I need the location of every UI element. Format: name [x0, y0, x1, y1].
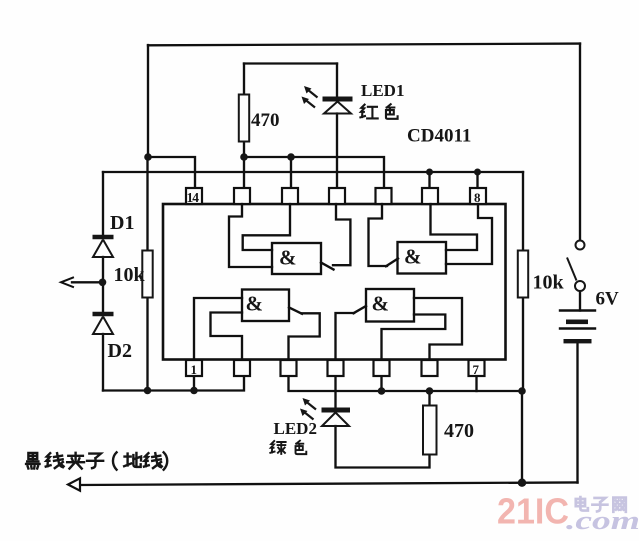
svg-text:D2: D2 — [108, 340, 132, 362]
svg-text:6V: 6V — [596, 289, 620, 310]
svg-text:&: & — [279, 246, 297, 270]
svg-text:470: 470 — [444, 420, 474, 442]
svg-text:14: 14 — [187, 190, 200, 205]
svg-text:1: 1 — [191, 362, 198, 377]
svg-text:&: & — [372, 292, 390, 316]
svg-text:.com: .com — [566, 506, 639, 535]
svg-text:LED2: LED2 — [274, 419, 317, 438]
svg-text:D1: D1 — [110, 212, 134, 234]
svg-text:&: & — [404, 245, 422, 269]
svg-text:470: 470 — [251, 110, 280, 131]
svg-text:8: 8 — [474, 190, 481, 205]
svg-text:&: & — [246, 292, 264, 316]
svg-text:LED1: LED1 — [361, 81, 404, 100]
svg-text:10k: 10k — [533, 272, 565, 294]
svg-text:CD4011: CD4011 — [407, 126, 471, 147]
svg-text:10k: 10k — [114, 264, 146, 286]
svg-text:21IC: 21IC — [497, 491, 569, 532]
svg-text:7: 7 — [473, 362, 480, 377]
